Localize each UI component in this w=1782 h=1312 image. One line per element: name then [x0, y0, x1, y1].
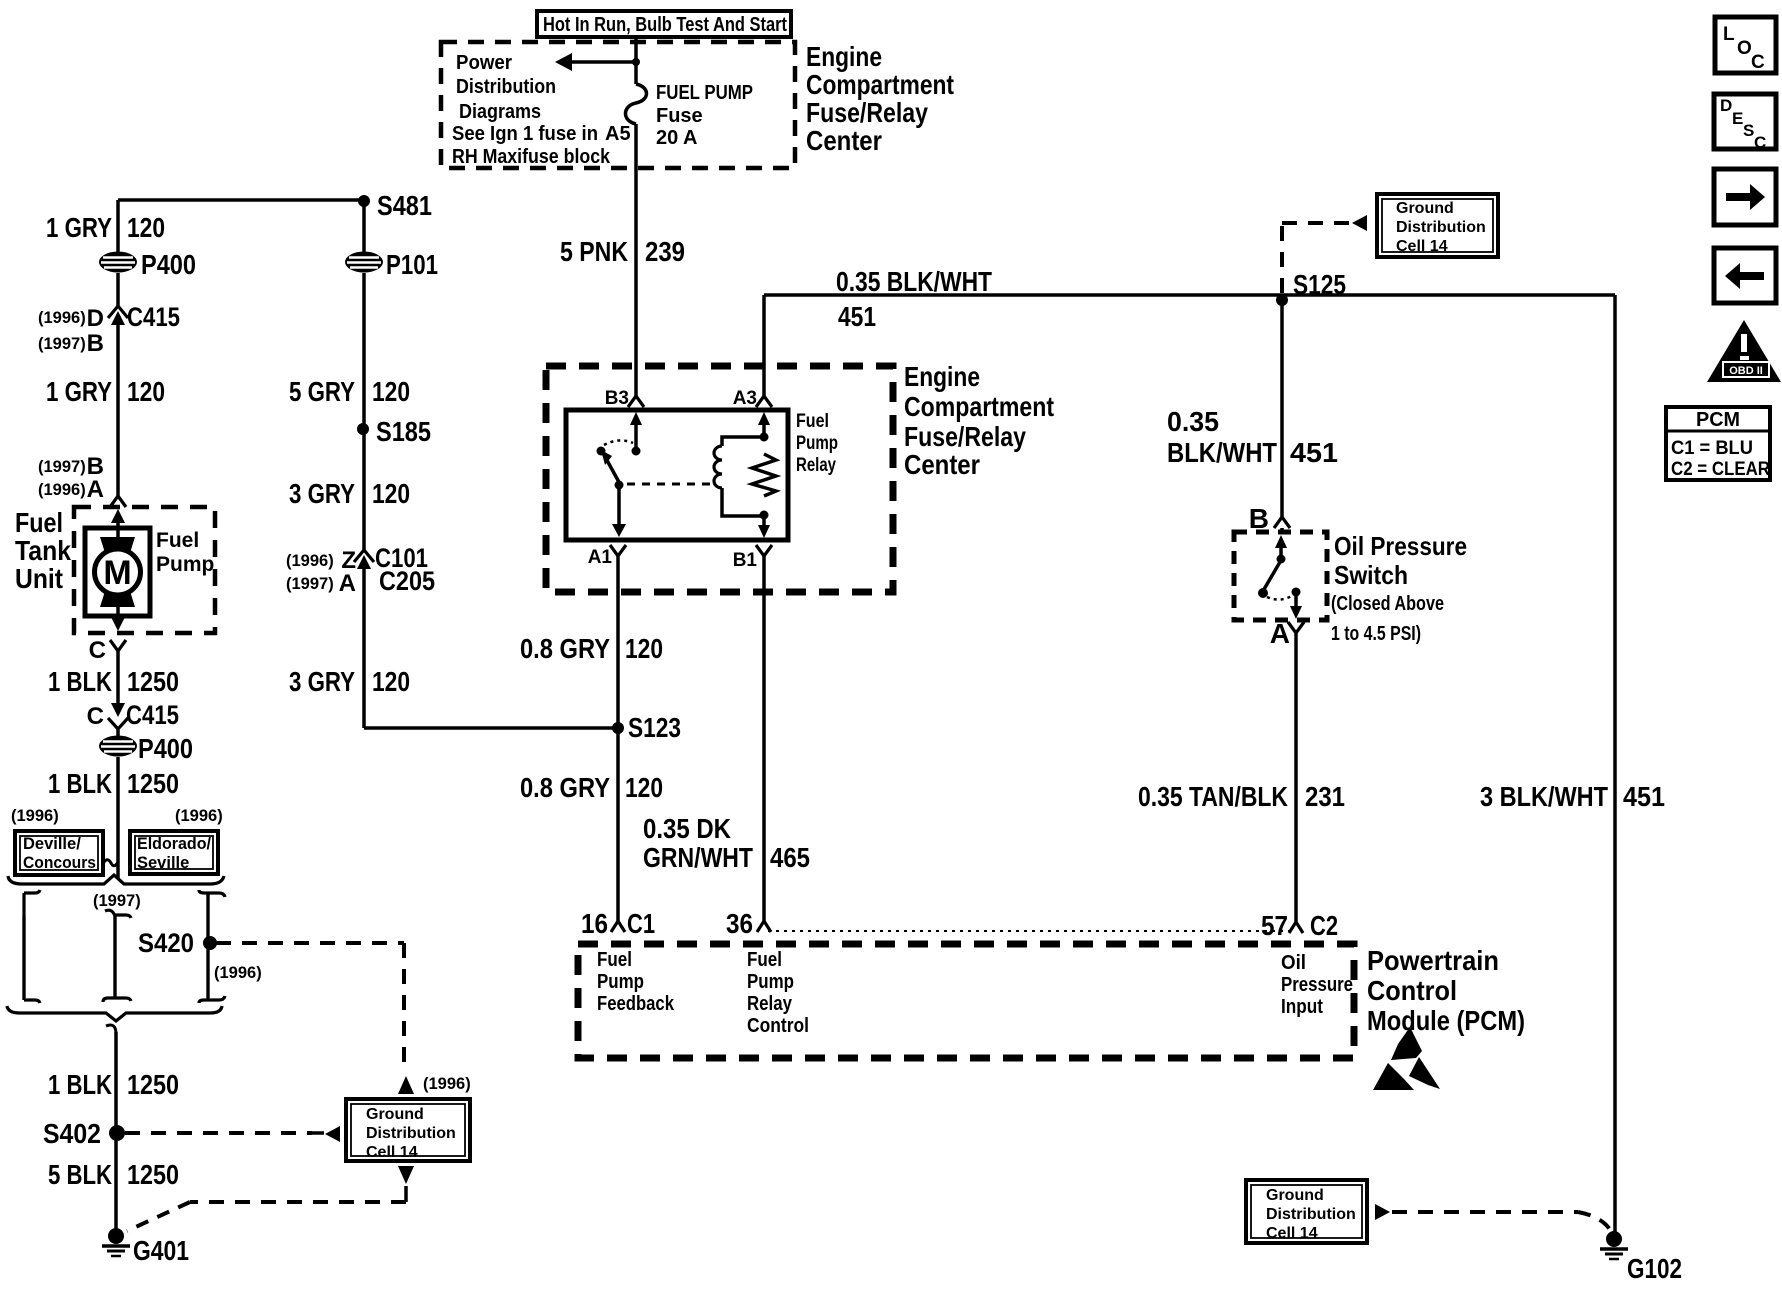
- svg-text:D: D: [1720, 96, 1732, 115]
- svg-text:C2: C2: [1310, 910, 1338, 941]
- svg-text:Relay: Relay: [796, 455, 836, 476]
- svg-text:Powertrain: Powertrain: [1367, 945, 1499, 976]
- svg-text:Seville: Seville: [137, 854, 189, 872]
- svg-text:C: C: [89, 637, 106, 664]
- svg-text:Pressure: Pressure: [1281, 974, 1353, 996]
- svg-text:Cell 14: Cell 14: [366, 1144, 418, 1161]
- svg-text:FUEL PUMP: FUEL PUMP: [656, 82, 753, 104]
- svg-text:Tank: Tank: [15, 535, 71, 566]
- svg-text:OBD II: OBD II: [1729, 365, 1763, 377]
- svg-text:36: 36: [726, 908, 753, 939]
- svg-text:O: O: [1737, 38, 1752, 59]
- svg-text:L: L: [1723, 24, 1735, 45]
- svg-text:S123: S123: [628, 712, 681, 743]
- svg-text:Ground: Ground: [366, 1106, 424, 1123]
- svg-text:57: 57: [1261, 910, 1288, 941]
- svg-text:231: 231: [1305, 781, 1345, 812]
- svg-text:120: 120: [372, 478, 410, 509]
- svg-text:Oil: Oil: [1281, 952, 1306, 974]
- svg-text:(1997): (1997): [93, 892, 141, 910]
- svg-text:C1 = BLU: C1 = BLU: [1671, 438, 1753, 459]
- svg-text:Concours: Concours: [23, 854, 96, 872]
- svg-text:C205: C205: [379, 566, 435, 596]
- svg-text:1250: 1250: [127, 1069, 179, 1100]
- svg-text:Switch: Switch: [1334, 560, 1408, 590]
- svg-text:Hot In Run, Bulb Test And Star: Hot In Run, Bulb Test And Start: [543, 14, 787, 36]
- svg-text:5 PNK: 5 PNK: [560, 236, 628, 267]
- svg-text:BLK/WHT: BLK/WHT: [1167, 437, 1277, 468]
- svg-text:Input: Input: [1281, 996, 1323, 1018]
- svg-text:239: 239: [645, 236, 685, 267]
- svg-text:Center: Center: [904, 449, 980, 480]
- svg-text:S481: S481: [377, 190, 432, 221]
- svg-text:120: 120: [625, 633, 663, 664]
- svg-text:S185: S185: [376, 416, 431, 447]
- svg-text:B: B: [1249, 503, 1269, 534]
- svg-text:16: 16: [581, 908, 608, 939]
- svg-text:120: 120: [127, 212, 165, 243]
- svg-text:5 GRY: 5 GRY: [289, 376, 355, 407]
- svg-text:0.35 TAN/BLK: 0.35 TAN/BLK: [1138, 781, 1288, 812]
- svg-text:Deville/: Deville/: [23, 835, 81, 853]
- svg-text:RH Maxifuse block: RH Maxifuse block: [452, 146, 611, 168]
- svg-text:Cell 14: Cell 14: [1266, 1225, 1318, 1242]
- svg-text:C415: C415: [126, 700, 179, 730]
- svg-text:(Closed Above: (Closed Above: [1331, 593, 1444, 615]
- svg-text:(1996): (1996): [38, 481, 86, 499]
- svg-text:B3: B3: [605, 388, 629, 409]
- svg-text:Pump: Pump: [796, 433, 838, 454]
- svg-text:Fuel: Fuel: [597, 949, 632, 971]
- svg-text:3 GRY: 3 GRY: [289, 666, 355, 697]
- svg-text:Power: Power: [456, 52, 512, 74]
- svg-text:Distribution: Distribution: [366, 1125, 456, 1142]
- svg-text:(1997): (1997): [38, 458, 86, 476]
- svg-text:3 BLK/WHT: 3 BLK/WHT: [1480, 781, 1608, 812]
- svg-text:0.35 BLK/WHT: 0.35 BLK/WHT: [836, 266, 992, 297]
- svg-text:Diagrams: Diagrams: [459, 101, 541, 123]
- svg-text:465: 465: [770, 842, 810, 873]
- svg-text:A3: A3: [733, 388, 757, 409]
- svg-text:1 BLK: 1 BLK: [48, 1069, 112, 1100]
- svg-text:1250: 1250: [127, 666, 179, 697]
- svg-text:C: C: [1751, 52, 1765, 73]
- svg-text:S: S: [1743, 121, 1754, 140]
- svg-text:D: D: [87, 305, 104, 332]
- svg-text:0.8 GRY: 0.8 GRY: [520, 772, 610, 803]
- svg-text:Fuse: Fuse: [656, 105, 703, 127]
- svg-text:A5: A5: [605, 123, 631, 145]
- svg-text:C415: C415: [127, 302, 180, 332]
- svg-text:See Ign 1 fuse in: See Ign 1 fuse in: [452, 123, 598, 145]
- svg-text:(1996): (1996): [214, 964, 262, 982]
- svg-text:1 GRY: 1 GRY: [46, 376, 112, 407]
- svg-text:Fuse/Relay: Fuse/Relay: [806, 97, 928, 128]
- svg-text:Fuse/Relay: Fuse/Relay: [904, 421, 1026, 452]
- svg-text:Ground: Ground: [1266, 1187, 1324, 1204]
- svg-text:A: A: [1270, 618, 1290, 649]
- svg-text:E: E: [1732, 109, 1743, 128]
- svg-text:Module (PCM): Module (PCM): [1367, 1005, 1525, 1036]
- svg-text:PCM: PCM: [1696, 409, 1740, 431]
- svg-text:120: 120: [127, 376, 165, 407]
- svg-text:1 BLK: 1 BLK: [48, 666, 112, 697]
- svg-text:Oil Pressure: Oil Pressure: [1334, 531, 1467, 561]
- svg-text:1 GRY: 1 GRY: [46, 212, 112, 243]
- svg-text:Pump: Pump: [156, 553, 214, 576]
- svg-text:Fuel: Fuel: [747, 949, 782, 971]
- svg-text:0.35 DK: 0.35 DK: [643, 813, 731, 844]
- svg-text:Feedback: Feedback: [597, 993, 675, 1015]
- svg-text:(1996): (1996): [286, 552, 334, 570]
- svg-text:Pump: Pump: [747, 971, 794, 993]
- svg-text:120: 120: [372, 376, 410, 407]
- svg-text:M: M: [103, 554, 131, 592]
- svg-text:1250: 1250: [127, 1159, 179, 1190]
- svg-text:5 BLK: 5 BLK: [48, 1159, 112, 1190]
- svg-text:Cell 14: Cell 14: [1396, 238, 1448, 255]
- svg-text:G401: G401: [133, 1235, 189, 1266]
- svg-text:3 GRY: 3 GRY: [289, 478, 355, 509]
- svg-text:Compartment: Compartment: [806, 69, 954, 100]
- svg-text:S420: S420: [138, 928, 194, 958]
- svg-text:(1997): (1997): [286, 575, 334, 593]
- svg-text:451: 451: [1290, 437, 1338, 468]
- svg-text:B: B: [87, 330, 104, 357]
- svg-text:G102: G102: [1627, 1253, 1682, 1284]
- svg-text:GRN/WHT: GRN/WHT: [643, 842, 753, 873]
- svg-text:Ground: Ground: [1396, 200, 1454, 217]
- svg-text:Eldorado/: Eldorado/: [137, 835, 211, 853]
- svg-text:120: 120: [625, 772, 663, 803]
- svg-text:P400: P400: [138, 733, 193, 764]
- svg-text:(1996): (1996): [11, 807, 59, 825]
- svg-text:Distribution: Distribution: [1266, 1206, 1356, 1223]
- svg-text:(1996): (1996): [423, 1075, 471, 1093]
- svg-text:451: 451: [838, 301, 876, 332]
- svg-text:1 to 4.5 PSI): 1 to 4.5 PSI): [1331, 623, 1421, 645]
- svg-text:C: C: [87, 703, 104, 730]
- svg-text:S402: S402: [43, 1118, 101, 1149]
- svg-text:Control: Control: [747, 1015, 809, 1037]
- svg-text:B1: B1: [733, 550, 758, 571]
- svg-text:Distribution: Distribution: [1396, 219, 1486, 236]
- svg-text:Unit: Unit: [15, 563, 63, 594]
- svg-text:Relay: Relay: [747, 993, 793, 1015]
- svg-text:0.35: 0.35: [1167, 406, 1219, 437]
- svg-text:20 A: 20 A: [656, 127, 698, 149]
- svg-text:1 BLK: 1 BLK: [48, 768, 112, 799]
- svg-text:A: A: [339, 570, 356, 597]
- svg-text:S125: S125: [1293, 269, 1346, 300]
- svg-text:C1: C1: [627, 908, 655, 939]
- svg-text:P400: P400: [141, 249, 196, 280]
- svg-text:Fuel: Fuel: [156, 529, 199, 552]
- svg-text:C: C: [1754, 133, 1766, 152]
- svg-text:Fuel: Fuel: [15, 507, 63, 538]
- svg-text:Engine: Engine: [904, 361, 980, 392]
- svg-text:Engine: Engine: [806, 41, 882, 72]
- svg-text:Center: Center: [806, 125, 882, 156]
- svg-text:(1997): (1997): [38, 335, 86, 353]
- svg-text:Pump: Pump: [597, 971, 644, 993]
- svg-text:Compartment: Compartment: [904, 391, 1054, 422]
- svg-text:451: 451: [1623, 781, 1665, 812]
- svg-text:Fuel: Fuel: [796, 411, 829, 432]
- svg-text:120: 120: [372, 666, 410, 697]
- svg-text:A: A: [87, 476, 104, 503]
- svg-text:0.8 GRY: 0.8 GRY: [520, 633, 610, 664]
- svg-text:(1996): (1996): [175, 807, 223, 825]
- svg-text:(1996): (1996): [38, 309, 86, 327]
- svg-text:Distribution: Distribution: [456, 76, 556, 98]
- svg-text:1250: 1250: [127, 768, 179, 799]
- svg-text:P101: P101: [386, 249, 438, 280]
- svg-text:Control: Control: [1367, 975, 1457, 1006]
- svg-text:A1: A1: [588, 547, 613, 568]
- svg-text:C2 = CLEAR: C2 = CLEAR: [1671, 459, 1770, 480]
